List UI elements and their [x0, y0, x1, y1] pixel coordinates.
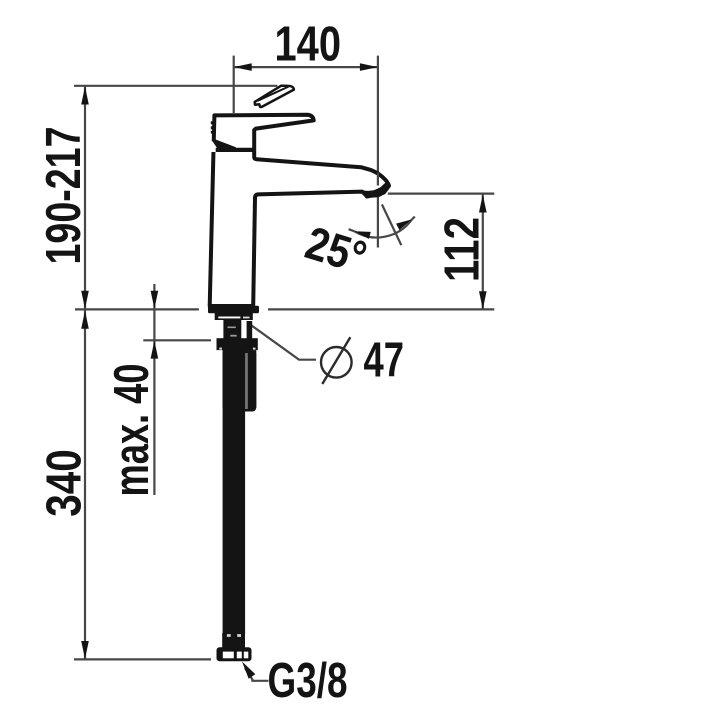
- dimension line 340: [84, 311, 86, 660]
- arrow 190-217 bottom (down): [81, 291, 89, 309]
- angle arc: [354, 219, 412, 237]
- extension line top of handle (190-217 top): [74, 85, 277, 87]
- arrow max40 bottom (up, tip at 340 line): [151, 341, 159, 359]
- arc tail left: [349, 229, 355, 231]
- svg-text:140: 140: [275, 17, 342, 72]
- arrow 190-217 top (up): [81, 87, 89, 105]
- spout outlet extension line (112 top): [388, 193, 495, 195]
- faucet body+spout silhouette: [210, 115, 389, 306]
- countertop reference line right: [268, 308, 494, 310]
- arrow 340 top (up): [81, 311, 89, 329]
- max40 lower line: [143, 339, 211, 341]
- arrow arc right end: [396, 219, 412, 230]
- arrow arc left end: [354, 231, 370, 239]
- hose ferrule: [222, 633, 245, 648]
- dimension line 112: [482, 195, 484, 310]
- svg-text:190-217: 190-217: [36, 127, 91, 265]
- extension line visible through spout tip: [377, 173, 379, 186]
- wedge sliver under lever back: [213, 140, 235, 148]
- base gasket band: [208, 306, 259, 313]
- lever seat thick line: [216, 148, 254, 152]
- arrow 140 left: [234, 63, 252, 71]
- arrow 140 right: [360, 63, 378, 71]
- drain rod strip upper: [247, 321, 253, 339]
- threaded shank upper: [223, 320, 241, 340]
- arrow 112 top (up): [479, 195, 487, 213]
- arrow G3/8 leader (points up-left): [242, 662, 255, 679]
- leader line dia47: [249, 324, 316, 360]
- lever grip nubs: [211, 121, 214, 124]
- mounting nut: [217, 338, 258, 350]
- arc tail right: [412, 217, 415, 220]
- dimension line 190-217: [84, 87, 86, 309]
- knob face divider: [258, 87, 289, 101]
- countertop reference line left: [75, 308, 199, 310]
- dimension line 140: [234, 66, 378, 68]
- svg-text:47: 47: [364, 333, 405, 388]
- arrow 112 bottom (down): [479, 291, 487, 309]
- diameter symbol: [321, 337, 352, 384]
- svg-text:G3/8: G3/8: [268, 653, 348, 708]
- svg-text:112: 112: [434, 217, 489, 282]
- svg-text:max. 40: max. 40: [104, 364, 159, 497]
- arrow 340 bottom (down): [81, 641, 89, 659]
- bottom reference line (340 bottom): [74, 658, 211, 660]
- G3/8 fitting: [217, 647, 252, 661]
- arrow max40 top (down, tip at countertop): [151, 291, 159, 309]
- spout tip dark fill: [363, 182, 389, 196]
- angle slanted ray 25deg: [382, 204, 401, 245]
- lever knob: [255, 86, 294, 107]
- leader line G3/8: [245, 668, 269, 681]
- supply tube with right hose block: [223, 350, 257, 408]
- flange under base: [215, 313, 253, 320]
- extension line 140 right / angle vertical ray: [377, 56, 379, 248]
- svg-text:340: 340: [37, 449, 92, 517]
- extension line 140 left: [233, 56, 235, 113]
- max40 dimension shaft: [153, 284, 155, 495]
